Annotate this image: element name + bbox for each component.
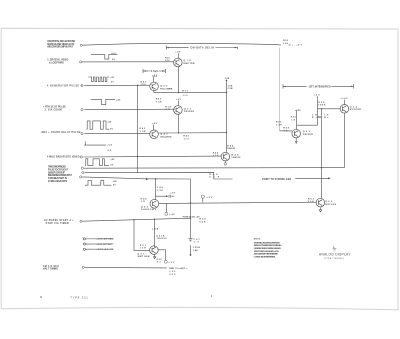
resistor R20 tick [278, 44, 290, 46]
Q43 +5V lead [153, 125, 155, 130]
capacitor C47 glyph [165, 195, 174, 198]
wire W3 generator pulse [84, 84, 149, 86]
svg-text:300: 300 [169, 274, 176, 276]
svg-text:+ - +5 V: + - +5 V [292, 45, 303, 47]
transistor Q43 [150, 130, 159, 139]
svg-text:0V: 0V [113, 185, 117, 187]
svg-text:+10V AC RET: +10V AC RET [97, 243, 114, 246]
svg-text:0V: 0V [110, 165, 114, 167]
svg-text:LR: LR [312, 114, 317, 116]
wire W2 crystal video [82, 61, 174, 63]
svg-text:Q51: Q51 [138, 253, 146, 255]
Q23 ground [295, 138, 298, 144]
vertical V9 Q51 top feed [154, 219, 156, 247]
wire Q24 base [318, 108, 341, 110]
svg-text:+5V: +5V [168, 262, 175, 264]
dimension ON-DATA DELAY [166, 46, 237, 50]
svg-text:L46: L46 [170, 213, 176, 216]
wire W8b [82, 177, 144, 179]
svg-text:1.5K: 1.5K [140, 131, 146, 133]
node J5 [81, 133, 83, 135]
node aux A [83, 238, 85, 240]
svg-text:(TYPE 7 MODEL): (TYPE 7 MODEL) [324, 258, 344, 260]
Q14 emitter wire [178, 67, 180, 93]
svg-text:+12V: +12V [341, 98, 349, 100]
wire aux A [86, 238, 114, 240]
vertical V7 from arrow wire down to C51 [190, 179, 192, 238]
svg-text:56K: 56K [200, 221, 206, 223]
waveform WF1 single pulse [91, 55, 118, 60]
svg-text:DRIVER: DRIVER [303, 134, 313, 136]
svg-text:+5V: +5V [175, 52, 181, 54]
svg-text:R41: R41 [141, 80, 147, 83]
title block [40, 245, 351, 300]
svg-text:R51: R51 [140, 245, 147, 247]
wire aux C [86, 248, 114, 250]
svg-text:& LOOPTHRU: & LOOPTHRU [49, 62, 64, 64]
Q24 +12V lead [344, 100, 346, 105]
svg-text:1K: 1K [166, 109, 170, 111]
svg-text:CRT INTENSIFIED: CRT INTENSIFIED [309, 85, 331, 88]
svg-text:180K: 180K [318, 105, 325, 107]
waveform WF2 square wave [88, 77, 109, 82]
svg-text:+5V: +5V [176, 99, 182, 101]
svg-text:+5V: +5V [107, 121, 112, 123]
vertical V2 to Q44 [226, 80, 228, 152]
transistor Q42 [150, 82, 159, 91]
wire W5 count pulse [84, 132, 149, 134]
svg-text:DRIVER: DRIVER [325, 204, 336, 206]
svg-text:C24: C24 [225, 77, 230, 80]
svg-text:HALT TIMING: HALT TIMING [43, 268, 58, 271]
svg-text:100: 100 [165, 60, 170, 62]
svg-text:+0.6: +0.6 [111, 53, 116, 55]
svg-text:ANALOG DISPLAY: ANALOG DISPLAY [319, 252, 351, 256]
svg-text:Q46: Q46 [141, 205, 149, 208]
svg-text:+5V: +5V [116, 99, 121, 101]
svg-text:INTEGRATOR CMP OUTPUT: INTEGRATOR CMP OUTPUT [47, 46, 74, 49]
vertical V1 bus [137, 85, 139, 172]
svg-text:FM 1/2 SEC: FM 1/2 SEC [43, 266, 59, 268]
vertical V3 faint to Q23 base [279, 48, 281, 131]
svg-text:0.5μS: 0.5μS [151, 70, 158, 73]
svg-text:+5V: +5V [152, 123, 158, 125]
wire W5b Q43 emitter row [158, 132, 227, 134]
transistor Q44 [221, 152, 230, 161]
svg-text:+5V: +5V [110, 77, 115, 79]
Q23 +5V lead with R23 [296, 110, 298, 129]
test point TP46 [165, 203, 167, 212]
svg-text:CONNECTED AT REAR PANEL: CONNECTED AT REAR PANEL [254, 255, 277, 258]
svg-text:+C8: +C8 [107, 145, 113, 147]
node J2 [80, 61, 82, 63]
node J1 [80, 44, 82, 46]
node J4 [81, 109, 83, 111]
Q46 emitter tick [154, 208, 157, 210]
svg-text:+5V: +5V [110, 159, 115, 161]
svg-text:ON CRYSTAL REFLECTOR SIG: ON CRYSTAL REFLECTOR SIG [47, 40, 75, 43]
svg-text:PULSE TO CRT LIGHT: PULSE TO CRT LIGHT [48, 169, 69, 171]
node aux B [83, 243, 85, 245]
svg-text:4 MILE RADAR SITE VIDEO: 4 MILE RADAR SITE VIDEO [47, 156, 80, 159]
svg-text:INTEGRATED 2 CMS OUTPUT: INTEGRATED 2 CMS OUTPUT [48, 174, 73, 177]
svg-text:PONT IN GO +5V: PONT IN GO +5V [183, 216, 201, 218]
svg-text:R42: R42 [156, 98, 162, 101]
svg-text:+5V: +5V [206, 197, 213, 199]
svg-text:1/2 PRODUCTION BEFORE TV-1 USI: 1/2 PRODUCTION BEFORE TV-1 USING ALL [254, 244, 283, 247]
svg-text:110: 110 [183, 95, 189, 97]
svg-text:1K: 1K [141, 201, 145, 203]
Q14 +5V lead [178, 53, 180, 58]
svg-text:+10V AC SEL: +10V AC SEL [97, 238, 114, 241]
capacitor C25 between V4 V5 [318, 116, 321, 117]
svg-text:1N4152: 1N4152 [157, 237, 168, 240]
svg-text:Q24: Q24 [350, 105, 358, 108]
wire W1 top data line [82, 43, 278, 45]
node J10 [82, 266, 84, 268]
trio of aux inputs [83, 238, 113, 251]
svg-text:R46: R46 [141, 197, 148, 200]
junction dots V1 [137, 85, 138, 86]
svg-text:FOLLOWER: FOLLOWER [160, 88, 172, 90]
wire W7 long bus to Q24 emitter [84, 167, 345, 170]
wire strobe arrow [295, 177, 329, 179]
Q22 +5V lead [178, 100, 180, 105]
V7 lower lead with arrow [190, 245, 192, 254]
svg-text:+5V: +5V [152, 75, 158, 77]
svg-text:DRIVER: DRIVER [184, 111, 194, 113]
svg-text:R26: R26 [276, 122, 282, 124]
node J9 [80, 220, 82, 222]
node J8 [82, 172, 84, 174]
svg-text:TIME 70 mSEC +: TIME 70 mSEC + [169, 268, 189, 270]
wire Q23 base [280, 130, 293, 132]
vertical V5 to Q63 [321, 109, 323, 199]
svg-text:1.5K: 1.5K [156, 101, 162, 103]
svg-text:+5V: +5V [113, 181, 118, 183]
Q42 +5V lead [153, 77, 155, 82]
svg-text:POINT TO STROBE GEN: POINT TO STROBE GEN [262, 178, 291, 181]
svg-text:0V: 0V [111, 81, 115, 83]
notes block [254, 238, 283, 258]
wire W9 phase start row [82, 218, 190, 221]
svg-text:56K: 56K [308, 201, 314, 203]
svg-text:R24: R24 [283, 127, 289, 130]
svg-text:C52: C52 [157, 259, 163, 261]
svg-text:R49: R49 [209, 173, 218, 176]
svg-text:Q63: Q63 [325, 201, 333, 203]
svg-text:ON-DATA DELAY: ON-DATA DELAY [191, 47, 215, 50]
svg-text:EMITTER: EMITTER [184, 63, 195, 65]
svg-text:160: 160 [283, 43, 289, 45]
svg-text:1/2 PHASE START A +: 1/2 PHASE START A + [44, 219, 75, 222]
node J3 [81, 84, 83, 86]
svg-text:Q23: Q23 [303, 131, 311, 133]
svg-text:TYPE 321: TYPE 321 [70, 295, 88, 299]
svg-text:THE SIGNAL CIRCUIT SHOWN PER U: THE SIGNAL CIRCUIT SHOWN PER UNIT [254, 241, 281, 244]
svg-text:R15: R15 [182, 91, 188, 93]
svg-text:+ RTN SLOT PULSE: + RTN SLOT PULSE [43, 107, 66, 109]
wire W6 radar video row [83, 155, 221, 158]
svg-text:Rx: Rx [312, 117, 318, 119]
svg-text:B44: B44 [231, 153, 239, 156]
svg-text:+12V: +12V [295, 110, 302, 112]
svg-text:110: 110 [184, 138, 190, 140]
waveform WF3 single pulse [91, 99, 115, 104]
waveform WF4 square wave [86, 121, 109, 129]
Q51 emitter lead [153, 255, 156, 259]
wire aux B [86, 243, 114, 245]
Q22 emitter wire [178, 114, 180, 133]
node J7 [81, 167, 83, 169]
transistor Q14 [174, 58, 183, 67]
svg-text:R50: R50 [200, 219, 207, 221]
svg-text:C46: C46 [157, 186, 164, 189]
svg-text:1N4152: 1N4152 [231, 156, 241, 159]
svg-text:+5V: +5V [314, 94, 321, 96]
node J8b [80, 176, 82, 178]
capacitor C51 plates [189, 238, 193, 241]
svg-text:3.3: 3.3 [194, 242, 200, 244]
transistor Q46 [150, 199, 159, 208]
svg-text:D25: D25 [318, 102, 325, 104]
wire W10 bottom row [85, 266, 167, 269]
svg-text:NOTE:: NOTE: [254, 238, 261, 240]
Q51 right wire and C52 branch [158, 250, 165, 260]
dimension CRT INTENSIFIED [283, 84, 354, 89]
svg-text:2. VIA COUNT: 2. VIA COUNT [45, 108, 64, 111]
svg-text:STOP VIA TIMER: STOP VIA TIMER [46, 222, 69, 225]
svg-text:R43: R43 [140, 127, 146, 130]
svg-text:STROBE/START IN: STROBE/START IN [48, 177, 67, 180]
dimension 0.5us [143, 69, 166, 73]
wire W8 strobe row [84, 172, 232, 179]
svg-text:R20: R20 [283, 40, 289, 42]
svg-text:Q22: Q22 [184, 108, 192, 110]
svg-text:MARK I/II AND VIDEO GATE: MARK I/II AND VIDEO GATE [47, 43, 74, 46]
vertical V4 D25 [297, 96, 318, 125]
svg-text:750: 750 [141, 84, 147, 86]
svg-text:1K: 1K [284, 130, 288, 132]
svg-text:A: A [333, 245, 335, 249]
mark dot left [40, 296, 42, 298]
svg-text:C2B: C2B [228, 88, 233, 90]
waveform WF6 wide pulse [85, 181, 111, 186]
svg-text:ASSOCIATES AT THAT SERIES ARE: ASSOCIATES AT THAT SERIES ARE [254, 253, 279, 256]
transistor Q23 [292, 129, 301, 138]
svg-text:DELAYED: DELAYED [161, 135, 172, 138]
vertical V8 Q46 feed [156, 179, 166, 200]
svg-text:C25A: C25A [193, 246, 200, 249]
svg-text:Q42: Q42 [160, 85, 168, 88]
transistor Q63 [316, 198, 325, 207]
wire Warr arrowed [144, 178, 191, 180]
svg-text:TRACE RADAR VIDEO: TRACE RADAR VIDEO [48, 166, 66, 169]
wire W11 Q46 to Q63 [159, 202, 316, 203]
svg-text:1N4152: 1N4152 [227, 147, 236, 150]
svg-text:D51A: D51A [157, 234, 165, 237]
svg-text:1.8K: 1.8K [193, 250, 198, 252]
waveform WF4b single pulse [84, 142, 106, 146]
svg-text:C51: C51 [194, 239, 201, 241]
svg-text:D44: D44 [227, 144, 234, 147]
svg-text:1.8K: 1.8K [276, 124, 282, 126]
Q63 ground [319, 208, 322, 213]
wire W4 [84, 108, 174, 110]
node aux C [83, 248, 85, 250]
svg-text:R45: R45 [183, 135, 189, 138]
svg-text:1K: 1K [291, 119, 295, 121]
svg-text:1. CRYSTAL VIDEO: 1. CRYSTAL VIDEO [47, 59, 68, 62]
Q44 emitter lead + ground [224, 161, 226, 163]
waveform WF5 wide square wave [85, 159, 109, 166]
svg-text:-DD2 + COUNT DELAY PULSE: -DD2 + COUNT DELAY PULSE [41, 131, 81, 134]
svg-text:STRUCTURE PLUS THE HIGH + LOW: STRUCTURE PLUS THE HIGH + LOW [254, 251, 279, 253]
svg-text:L52: L52 [169, 271, 176, 273]
transistor Q22 [174, 106, 183, 115]
svg-text:BUFFER: BUFFER [350, 109, 361, 111]
svg-text:SWEEP START/UP: SWEEP START/UP [48, 171, 65, 174]
svg-text:15K: 15K [228, 85, 233, 87]
svg-text:4 GENERATOR PULSE +: 4 GENERATOR PULSE + [47, 85, 83, 88]
svg-text:110: 110 [213, 155, 219, 157]
svg-text:Q14: Q14 [184, 59, 192, 62]
svg-text:GENERAL TELEPHONE E 4 SOLID LI: GENERAL TELEPHONE E 4 SOLID LINES [254, 247, 282, 250]
test point TP47 above wire [202, 198, 204, 202]
wire W3b Q42 emitter row [154, 90, 227, 93]
transistor Q24 [340, 105, 349, 114]
svg-text:R63: R63 [308, 198, 315, 200]
svg-text:+5V: +5V [170, 193, 176, 195]
svg-text:Q43: Q43 [161, 133, 169, 136]
svg-text:R23: R23 [291, 117, 297, 119]
svg-text:SHADOW: SHADOW [141, 208, 155, 211]
svg-text:-10V AC IN: -10V AC IN [97, 248, 114, 251]
svg-text:L51A: L51A [152, 227, 158, 230]
svg-text:1.5K: 1.5K [157, 190, 163, 192]
node J6 [80, 156, 82, 158]
svg-text:SWP GEN: SWP GEN [138, 256, 150, 258]
svg-text:R44: R44 [213, 151, 219, 154]
vertical V10 Q51 base feed [134, 220, 150, 251]
transistor Q51 [150, 246, 159, 255]
svg-text:2 CMS GATE/10 RTN: 2 CMS GATE/10 RTN [48, 180, 67, 183]
vertical V6 Q24 emitter down [344, 113, 346, 168]
svg-text:10K: 10K [140, 248, 146, 250]
